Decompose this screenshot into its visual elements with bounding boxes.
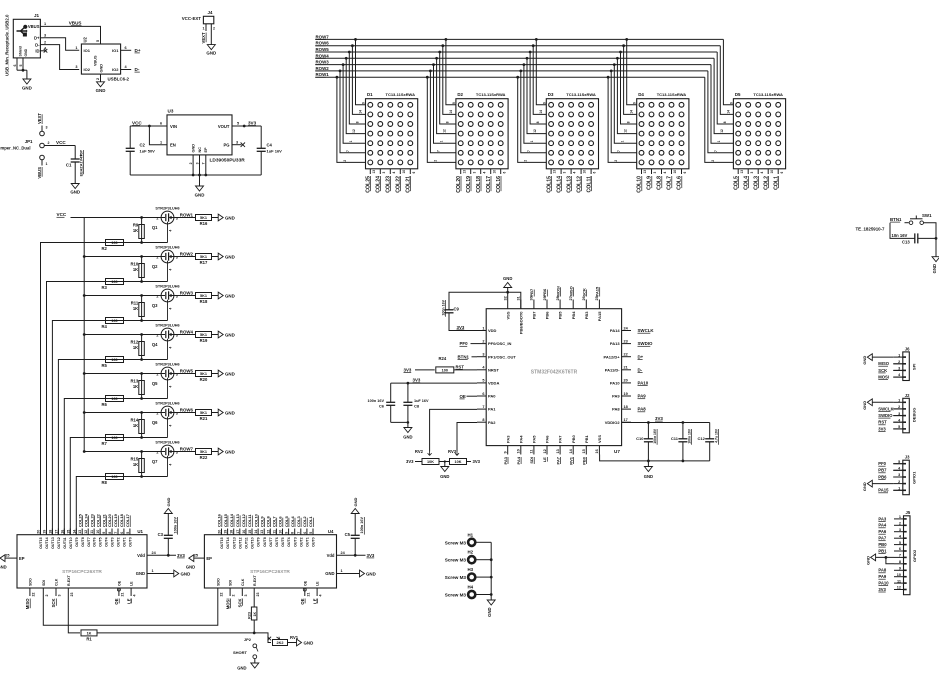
wire BOOT0 to gnd [508, 292, 521, 309]
svg-text:SCK: SCK [238, 599, 243, 608]
svg-text:TE_1825910-7: TE_1825910-7 [855, 227, 885, 232]
svg-text:PA3: PA3 [878, 516, 887, 521]
svg-text:GND: GND [503, 276, 512, 281]
svg-text:C3: C3 [158, 532, 164, 537]
wire [439, 462, 445, 467]
svg-text:PF0: PF0 [878, 461, 886, 466]
svg-text:R12: R12 [131, 340, 139, 345]
svg-text:3V3: 3V3 [248, 120, 257, 125]
svg-text:COL13: COL13 [235, 513, 240, 527]
svg-text:PA4: PA4 [878, 523, 887, 528]
svg-text:R21: R21 [200, 416, 208, 421]
svg-text:LE: LE [312, 598, 317, 604]
pin 21 U1 OE [118, 588, 120, 596]
svg-text:H4: H4 [468, 585, 474, 590]
svg-text:J1: J1 [34, 13, 40, 18]
svg-text:R13: R13 [131, 379, 139, 384]
svg-text:STR2P3LUH6: STR2P3LUH6 [155, 441, 179, 445]
wire U1 SDI to U4 SDO [43, 596, 218, 625]
pin 6 U1 OUT1 [123, 529, 125, 535]
svg-text:C12: C12 [697, 436, 705, 441]
svg-text:PG: PG [223, 143, 229, 148]
svg-text:SWDIO: SWDIO [638, 341, 653, 346]
svg-text:GND: GND [0, 565, 7, 570]
svg-text:VBUS: VBUS [37, 167, 42, 179]
wire stage 3 vcc branch [84, 295, 161, 297]
svg-text:22: 22 [219, 593, 223, 597]
svg-text:SW1: SW1 [922, 213, 932, 218]
ground flag [218, 448, 223, 455]
wire [254, 659, 256, 663]
svg-text:C4: C4 [267, 143, 273, 148]
svg-text:4: 4 [169, 464, 173, 466]
wire ROW5 bus [315, 51, 717, 53]
pin 9 U7 PA3 [507, 446, 509, 455]
svg-text:STR2P3LUH6: STR2P3LUH6 [155, 207, 179, 211]
svg-text:12: 12 [352, 129, 356, 133]
svg-text:EP: EP [204, 147, 208, 153]
capacitor C8 1uF 16V [407, 383, 409, 402]
svg-text:3V3: 3V3 [878, 426, 886, 431]
svg-text:D-: D- [35, 42, 40, 47]
svg-text:SDI: SDI [42, 580, 46, 586]
svg-text:COL1: COL1 [308, 516, 313, 527]
wire PA1 to RV2 wiper [430, 409, 477, 451]
wire ROW5 tap to D4 [621, 52, 637, 124]
svg-text:ROW1: ROW1 [316, 72, 330, 77]
pin D4 column COL8 [661, 169, 663, 174]
svg-text:PA4: PA4 [516, 456, 521, 464]
pin D4 column COL6 [681, 169, 683, 174]
ground [504, 283, 512, 288]
svg-text:3V3: 3V3 [406, 459, 414, 464]
svg-text:R16: R16 [200, 221, 208, 226]
svg-text:6: 6 [899, 547, 901, 551]
pin 2 U1 SDI [42, 588, 44, 596]
pin 12 J5 [894, 589, 904, 591]
pin 30 U7 PB7 [533, 300, 535, 309]
svg-text:2: 2 [156, 256, 158, 260]
svg-text:13: 13 [260, 530, 264, 534]
resistor R1 1K [81, 630, 97, 636]
svg-text:1K: 1K [133, 423, 138, 428]
svg-text:COL25: COL25 [77, 513, 82, 527]
svg-text:1: 1 [530, 140, 534, 142]
svg-text:C11: C11 [671, 436, 679, 441]
wire stage 2 gate line [106, 281, 168, 283]
svg-text:3: 3 [236, 140, 238, 144]
svg-text:GND: GND [225, 371, 235, 376]
svg-text:OUT1: OUT1 [123, 537, 127, 547]
svg-text:OUT9: OUT9 [257, 537, 261, 547]
svg-text:23: 23 [70, 593, 74, 597]
svg-text:4: 4 [169, 308, 173, 310]
pin 3 U1 CLK [55, 588, 57, 596]
svg-text:R11: R11 [131, 301, 139, 306]
svg-text:4: 4 [169, 230, 173, 232]
svg-text:STR2P3LUH6: STR2P3LUH6 [155, 363, 179, 367]
svg-text:6: 6 [120, 532, 124, 534]
svg-text:RST: RST [878, 420, 887, 425]
ground flag [867, 354, 872, 361]
wire ROW7 bus [315, 38, 723, 40]
svg-text:PA7: PA7 [878, 536, 887, 541]
wire gnd rail [130, 174, 261, 176]
svg-text:GND: GND [70, 190, 80, 195]
svg-text:13: 13 [462, 170, 466, 174]
svg-text:6: 6 [13, 65, 17, 67]
pin 19 U4 OUT14 [227, 529, 229, 535]
ground flag [218, 331, 223, 338]
wire ROW4 bus [315, 57, 714, 59]
wire [288, 642, 297, 644]
wire ROW1 tap to D5 [705, 77, 734, 162]
wire ROW2 tap to D1 [340, 71, 366, 153]
svg-text:COL14: COL14 [229, 513, 234, 527]
svg-text:9: 9 [633, 102, 637, 104]
potentiometer RV1 2K2 [254, 633, 271, 643]
svg-text:1K: 1K [133, 306, 138, 311]
svg-text:COL8: COL8 [266, 516, 271, 527]
svg-text:10: 10 [517, 449, 521, 453]
svg-text:TC13-11SxRWA: TC13-11SxRWA [386, 92, 416, 97]
svg-text:6: 6 [482, 392, 484, 396]
svg-text:MISO: MISO [568, 286, 573, 296]
svg-text:PA15: PA15 [878, 488, 889, 493]
pin 4 U4 LE [316, 588, 318, 596]
svg-text:10: 10 [673, 170, 677, 174]
svg-text:11: 11 [530, 449, 534, 453]
svg-text:32: 32 [504, 296, 508, 300]
svg-text:9: 9 [542, 102, 546, 104]
svg-text:7: 7 [297, 532, 301, 534]
IC U2 USBLC6-2 [81, 44, 120, 74]
svg-text:25: 25 [194, 554, 198, 558]
svg-text:OUT0: OUT0 [312, 537, 316, 547]
svg-text:D3: D3 [548, 92, 554, 97]
LED matrix D1 TC13-11SxRWA [366, 99, 418, 169]
svg-text:21: 21 [306, 593, 310, 597]
svg-text:18: 18 [230, 530, 234, 534]
svg-text:OUT15: OUT15 [39, 537, 43, 549]
svg-text:VDDIO2: VDDIO2 [605, 420, 621, 425]
svg-text:OUT7: OUT7 [269, 537, 273, 547]
wire ROW2 tap to D4 [611, 71, 637, 153]
pin 15 U7 PB1 [585, 446, 587, 455]
pin 5 U4 OUT0 [312, 529, 314, 535]
pin D5 column COL5 [737, 169, 739, 174]
transistor Q2 STR2P3LUH6 [161, 250, 174, 263]
pin 10 J5 [894, 576, 904, 578]
svg-text:5: 5 [237, 122, 239, 126]
svg-text:SDI: SDI [529, 457, 534, 464]
svg-text:U7: U7 [614, 449, 620, 454]
pin 1 JP1 VBUS [41, 160, 43, 166]
pin 1 U7 VDD [477, 330, 486, 332]
wire ROW6 tap to D1 [352, 46, 365, 115]
pin 4 J1 ID no-connect [40, 50, 44, 52]
ground flag [189, 555, 194, 562]
ground flag [0, 555, 5, 562]
svg-text:MISO: MISO [878, 361, 889, 366]
ground [164, 509, 172, 514]
wire stage 4 vcc branch [84, 334, 161, 336]
IC U7 STM32F042K6T6TR [486, 309, 621, 446]
pin 14 U7 PB0 [572, 446, 574, 455]
pin 7 U7 PA1 [477, 408, 486, 410]
wire ROW4 tap to D4 [617, 58, 636, 133]
svg-text:23: 23 [256, 593, 260, 597]
svg-text:ROW4: ROW4 [316, 53, 330, 58]
svg-text:7: 7 [202, 162, 206, 164]
svg-text:11: 11 [272, 530, 276, 534]
svg-text:13: 13 [556, 449, 560, 453]
pin 3 J6 [893, 369, 903, 371]
wire [17, 69, 27, 71]
wire gate drop to driver pin [52, 321, 105, 535]
pin 10 U4 OUT5 [282, 529, 284, 535]
pin 13 U4 OUT8 [263, 529, 265, 535]
pin 17 U1 OUT12 [57, 529, 59, 535]
svg-text:1: 1 [160, 140, 162, 144]
pin 4 J6 [893, 376, 903, 378]
svg-text:R9: R9 [133, 223, 139, 228]
svg-text:PB1: PB1 [584, 434, 589, 443]
svg-text:COL9: COL9 [259, 516, 264, 527]
pin 6 U2 D+ wire [121, 49, 132, 51]
svg-text:VCC: VCC [132, 120, 142, 125]
pin 6 J5 [894, 550, 904, 552]
svg-text:1: 1 [75, 46, 77, 50]
svg-text:10: 10 [402, 170, 406, 174]
wire [905, 222, 909, 224]
svg-text:31: 31 [517, 296, 521, 300]
svg-text:GND: GND [862, 401, 867, 410]
svg-text:MOSI: MOSI [878, 374, 889, 379]
svg-text:17: 17 [236, 530, 240, 534]
svg-text:PA2: PA2 [488, 420, 496, 425]
svg-text:Jumper_NC_Dual: Jumper_NC_Dual [0, 146, 31, 151]
svg-text:R8: R8 [102, 480, 108, 485]
svg-text:3: 3 [58, 595, 62, 597]
svg-text:COL15: COL15 [223, 513, 228, 527]
svg-text:C2: C2 [140, 143, 146, 148]
svg-text:GND: GND [186, 565, 195, 570]
svg-text:100: 100 [442, 369, 448, 373]
svg-text:ROW3: ROW3 [180, 291, 194, 296]
wire VCC rail [71, 218, 85, 452]
svg-text:C5: C5 [345, 532, 351, 537]
wire [212, 412, 219, 414]
svg-text:OUT2: OUT2 [299, 537, 303, 547]
pin 14 U1 OUT9 [75, 529, 77, 535]
svg-text:1K: 1K [133, 384, 138, 389]
svg-text:2: 2 [189, 162, 193, 164]
svg-text:100: 100 [111, 319, 117, 323]
svg-text:OUT11: OUT11 [63, 537, 67, 548]
svg-text:2: 2 [213, 27, 215, 31]
pin 19 U7 PA9 [622, 395, 631, 397]
svg-text:PA10: PA10 [638, 381, 649, 386]
svg-text:PA7: PA7 [558, 435, 563, 443]
svg-text:8: 8 [355, 121, 359, 123]
svg-text:R2: R2 [102, 246, 108, 251]
pin 5 J2 [893, 428, 903, 430]
svg-text:VBUS: VBUS [69, 21, 82, 26]
svg-text:J3: J3 [905, 455, 910, 460]
svg-text:STR2P3LUH6: STR2P3LUH6 [155, 285, 179, 289]
svg-text:PB0: PB0 [582, 456, 587, 465]
svg-text:3V3: 3V3 [177, 553, 185, 558]
pin 11 J5 [894, 582, 904, 584]
pin 4 U1 LE [130, 588, 132, 596]
svg-text:1: 1 [46, 162, 48, 166]
wire gate drop to driver pin [47, 282, 106, 535]
svg-text:ROW4: ROW4 [180, 330, 194, 335]
svg-text:GND: GND [206, 51, 216, 56]
wire ROW4 tap to D2 [437, 58, 456, 133]
svg-text:PB0: PB0 [878, 542, 887, 547]
svg-text:1K: 1K [133, 228, 138, 233]
pin 2 J1 D- [40, 44, 43, 46]
svg-text:ROW1: ROW1 [180, 213, 194, 218]
ground flag [218, 370, 223, 377]
resistor R12 1K [141, 335, 143, 360]
pin D4 column COL9 [651, 169, 653, 174]
resistor R7 100 [106, 435, 124, 441]
svg-text:GND: GND [353, 498, 358, 507]
svg-text:VCC: VCC [57, 212, 67, 217]
pin 7 U1 OUT2 [117, 529, 119, 535]
svg-text:OE: OE [460, 394, 466, 399]
svg-text:OUT14: OUT14 [45, 537, 49, 549]
svg-text:3: 3 [899, 528, 901, 532]
transistor Q7 STR2P3LUH6 [161, 445, 174, 458]
svg-text:10K: 10K [455, 460, 462, 464]
svg-text:TC13-11SxRWA: TC13-11SxRWA [566, 92, 596, 97]
svg-text:16: 16 [60, 530, 64, 534]
wire ROW6 tap to D5 [720, 46, 733, 115]
pin 8 U7 PA2 [477, 421, 486, 423]
svg-text:7: 7 [527, 150, 531, 152]
svg-text:SHORT: SHORT [233, 650, 248, 655]
svg-text:1K: 1K [253, 612, 257, 617]
svg-text:PA1: PA1 [488, 407, 496, 412]
pin 20 U1 OUT15 [40, 529, 42, 535]
svg-text:PA9: PA9 [612, 394, 620, 399]
pin 28 U7 PB5 [559, 300, 561, 309]
svg-text:C1: C1 [66, 163, 72, 168]
svg-text:PB7: PB7 [529, 288, 534, 297]
svg-text:Screw M3: Screw M3 [445, 575, 467, 580]
wire ROW2 tap to D5 [708, 71, 734, 153]
svg-text:PA8: PA8 [638, 407, 647, 412]
pin 23 U7 PA13 [622, 343, 631, 345]
svg-text:J6: J6 [905, 346, 910, 351]
wire stage 7 gate line [106, 476, 168, 478]
svg-text:PA10: PA10 [878, 581, 889, 586]
svg-text:9: 9 [729, 102, 733, 104]
svg-text:VBUS: VBUS [28, 24, 40, 29]
resistor R22 5K1 [196, 449, 212, 455]
wire stage 5 vcc branch [84, 373, 161, 375]
pin D3 column COL13 [570, 169, 572, 174]
svg-text:8: 8 [536, 121, 540, 123]
svg-text:2: 2 [232, 595, 236, 597]
svg-text:12: 12 [443, 129, 447, 133]
wire ROW7 tap to D2 [446, 39, 456, 104]
wire ROW5 tap to D2 [440, 52, 456, 124]
svg-text:2: 2 [614, 160, 618, 162]
svg-text:GND: GND [225, 449, 235, 454]
svg-text:COL17: COL17 [125, 513, 130, 527]
svg-text:4: 4 [169, 386, 173, 388]
svg-text:7: 7 [617, 150, 621, 152]
ground flag [218, 214, 223, 221]
pin 26 U7 PB3 [585, 300, 587, 309]
ground [441, 467, 449, 472]
svg-text:LD39050PU33R: LD39050PU33R [210, 158, 246, 164]
wire [476, 559, 492, 561]
pin 11 U1 OUT6 [93, 529, 95, 535]
resistor R13 1K [141, 374, 143, 399]
svg-text:VIN: VIN [170, 124, 177, 129]
svg-text:R18: R18 [200, 299, 208, 304]
svg-text:IO1: IO1 [84, 48, 91, 53]
wire ROW3 tap to D5 [711, 65, 733, 144]
svg-text:Q5: Q5 [152, 381, 158, 386]
svg-text:3: 3 [244, 595, 248, 597]
svg-text:3: 3 [750, 172, 754, 174]
svg-text:14: 14 [72, 530, 76, 534]
pin 21 U7 PA11/D- [622, 369, 631, 371]
ground flag [360, 570, 365, 577]
wire ROW2 tap to D2 [430, 71, 456, 153]
svg-text:IO1: IO1 [112, 48, 119, 53]
pin D2 column COL16 [500, 169, 502, 174]
svg-text:BTN1: BTN1 [458, 354, 470, 359]
svg-text:GND: GND [136, 571, 145, 576]
svg-text:Q4: Q4 [152, 342, 158, 347]
svg-text:10: 10 [96, 530, 100, 534]
pin 12 U7 PA6 [546, 446, 548, 455]
svg-text:2: 2 [899, 522, 901, 526]
wire gate drop to driver pin [76, 477, 105, 535]
wire ROW3 tap to D3 [524, 65, 546, 144]
pin 17 U7 VDDIO2 [622, 421, 631, 423]
svg-text:R20: R20 [200, 377, 208, 382]
capacitor C5 100n 16V [354, 539, 356, 556]
svg-text:R15: R15 [131, 457, 139, 462]
svg-text:OUT10: OUT10 [251, 537, 255, 549]
svg-text:JP1: JP1 [25, 139, 33, 144]
ground [407, 422, 409, 427]
svg-text:BTN1: BTN1 [890, 217, 902, 222]
svg-text:Vdd: Vdd [137, 553, 145, 558]
svg-text:3: 3 [382, 172, 386, 174]
svg-text:100: 100 [111, 436, 117, 440]
IC U3 LD39050PU33R [167, 115, 232, 155]
svg-text:ROW6: ROW6 [180, 408, 194, 413]
pin 2 U7 PF0/OSC_IN [477, 343, 486, 345]
pin 18 U7 PA8 [622, 408, 631, 410]
svg-text:D2: D2 [457, 92, 463, 97]
pins 5 6 J1 shield/gnd [16, 58, 18, 70]
svg-text:3V3: 3V3 [413, 378, 421, 383]
svg-text:D+: D+ [135, 48, 141, 53]
svg-text:15: 15 [66, 530, 70, 534]
pin 2 U2 GND [100, 74, 102, 82]
